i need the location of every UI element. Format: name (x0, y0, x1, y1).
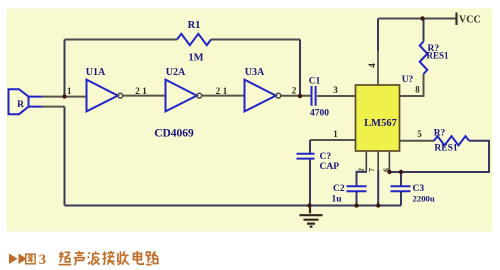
svg-text:4: 4 (367, 63, 377, 68)
junction bus at C2 (354, 203, 358, 207)
svg-text:2: 2 (135, 86, 140, 96)
wire: RES1 vertical top to VCC rail (423, 19, 425, 42)
wire: LM567 pin 2 jog to C2 (365, 151, 367, 171)
wire: left vertical drop to ground bus (64, 107, 66, 206)
wire: top feedback right segment (211, 39, 300, 41)
svg-text:VCC: VCC (459, 15, 481, 26)
wire: right loop from RES1 down to pin6 net (390, 141, 490, 172)
junction pin6 net at C3 (399, 170, 403, 174)
caption char chao (59, 252, 72, 265)
svg-text:R?: R? (434, 129, 446, 139)
wire: U1A output to U2A input (123, 95, 166, 97)
node 2 junction (feedback meets U3A output) (298, 94, 302, 98)
caption char shou (118, 251, 129, 264)
wire: top feedback left segment (65, 39, 178, 41)
junction VCC rail (420, 16, 424, 20)
capacitor C3 (391, 184, 435, 204)
caption arrow 2 (19, 254, 28, 265)
op-amp U1A (inverter) (86, 67, 123, 111)
svg-text:3: 3 (39, 252, 47, 268)
svg-text:R1: R1 (188, 20, 201, 31)
junction bus at ground (307, 203, 311, 207)
resistor R? RES1 horizontal (434, 129, 469, 154)
wire: C1 right plate to LM567 pin 3 (317, 95, 356, 97)
svg-text:2: 2 (216, 86, 221, 96)
wire: LM567 pin 5 to RES1 horizontal (400, 140, 435, 142)
caption char lu (146, 251, 158, 264)
svg-text:R: R (17, 100, 24, 110)
svg-text:1: 1 (142, 86, 147, 96)
caption char sheng (74, 251, 85, 265)
svg-text:5: 5 (417, 129, 422, 139)
caption char bo (88, 251, 100, 265)
svg-text:1: 1 (223, 86, 228, 96)
caption arrow 1 (9, 254, 18, 265)
svg-text:CD4069: CD4069 (154, 128, 194, 140)
svg-text:C2: C2 (333, 184, 345, 194)
resistor R1 (177, 20, 211, 64)
svg-text:2: 2 (292, 86, 297, 96)
wire: LM567 pin 6 vertical (388, 151, 390, 170)
wire: LM567 pin 8 to RES1 vertical (400, 74, 424, 96)
transducer R (9, 89, 43, 114)
junction bus at pin7 (376, 203, 380, 207)
svg-text:RES1: RES1 (427, 51, 450, 61)
junction pin6 net left (387, 170, 391, 174)
resistor R? RES1 vertical (420, 42, 449, 75)
svg-text:7: 7 (367, 168, 376, 172)
wire: U2A output to U3A input (202, 95, 245, 97)
wire: C3 top connection (400, 172, 402, 186)
wire: C? CAP vertical bottom to ground bus (309, 159, 311, 206)
svg-text:2200u: 2200u (413, 194, 435, 204)
svg-text:U2A: U2A (166, 67, 186, 78)
svg-text:C?: C? (320, 152, 332, 162)
svg-text:U3A: U3A (245, 67, 265, 78)
svg-text:2: 2 (357, 168, 366, 172)
caption char jie (102, 251, 114, 265)
wire: C2 bottom to ground bus (356, 191, 358, 205)
svg-text:1: 1 (333, 129, 338, 139)
svg-text:1: 1 (67, 86, 72, 96)
svg-text:4700: 4700 (310, 109, 329, 119)
power VCC (457, 13, 481, 26)
svg-text:LM567: LM567 (364, 118, 397, 129)
wire: C3 bottom to ground bus (400, 191, 402, 205)
svg-text:C3: C3 (413, 184, 425, 194)
caption char dian (133, 251, 143, 264)
svg-text:1u: 1u (332, 195, 343, 205)
op-amp U2A (inverter) (166, 67, 202, 111)
wire: U3A output to C1 left plate (281, 95, 311, 97)
svg-text:U1A: U1A (86, 67, 106, 78)
wire: C? CAP vertical top (309, 140, 311, 154)
wire: R top terminal to U1A input (42, 96, 86, 98)
wire: VCC rail horizontal (378, 18, 456, 20)
wire: ground bus (65, 205, 402, 207)
svg-text:3: 3 (333, 85, 338, 95)
wire: LM567 pin 7 vertical to ground bus (377, 151, 379, 170)
svg-text:1M: 1M (188, 53, 203, 64)
wire: R bottom terminal horizontal (42, 106, 65, 108)
svg-text:CAP: CAP (320, 162, 340, 172)
op-amp U3A (inverter) (245, 67, 281, 111)
node 1 junction (62, 94, 66, 98)
wire: pin 4 vertical to VCC rail (377, 50, 379, 85)
caption char tu (figure) (26, 254, 35, 264)
wire: feedback vertical from node 1 up (64, 40, 66, 97)
wire: LM567 pin 1 to C? CAP (310, 139, 356, 141)
svg-text:6: 6 (381, 168, 390, 172)
ground (300, 206, 323, 227)
op-amp U1 chip LM567 (356, 75, 414, 151)
capacitor C1 (309, 77, 330, 119)
svg-text:C1: C1 (309, 77, 321, 87)
svg-text:U?: U? (402, 75, 414, 85)
svg-text:RES1: RES1 (434, 144, 457, 154)
svg-text:8: 8 (415, 85, 420, 95)
capacitor C2 (332, 184, 367, 205)
wire: feedback vertical down to U3A output net (299, 40, 301, 97)
capacitor C? CAP (297, 152, 340, 172)
